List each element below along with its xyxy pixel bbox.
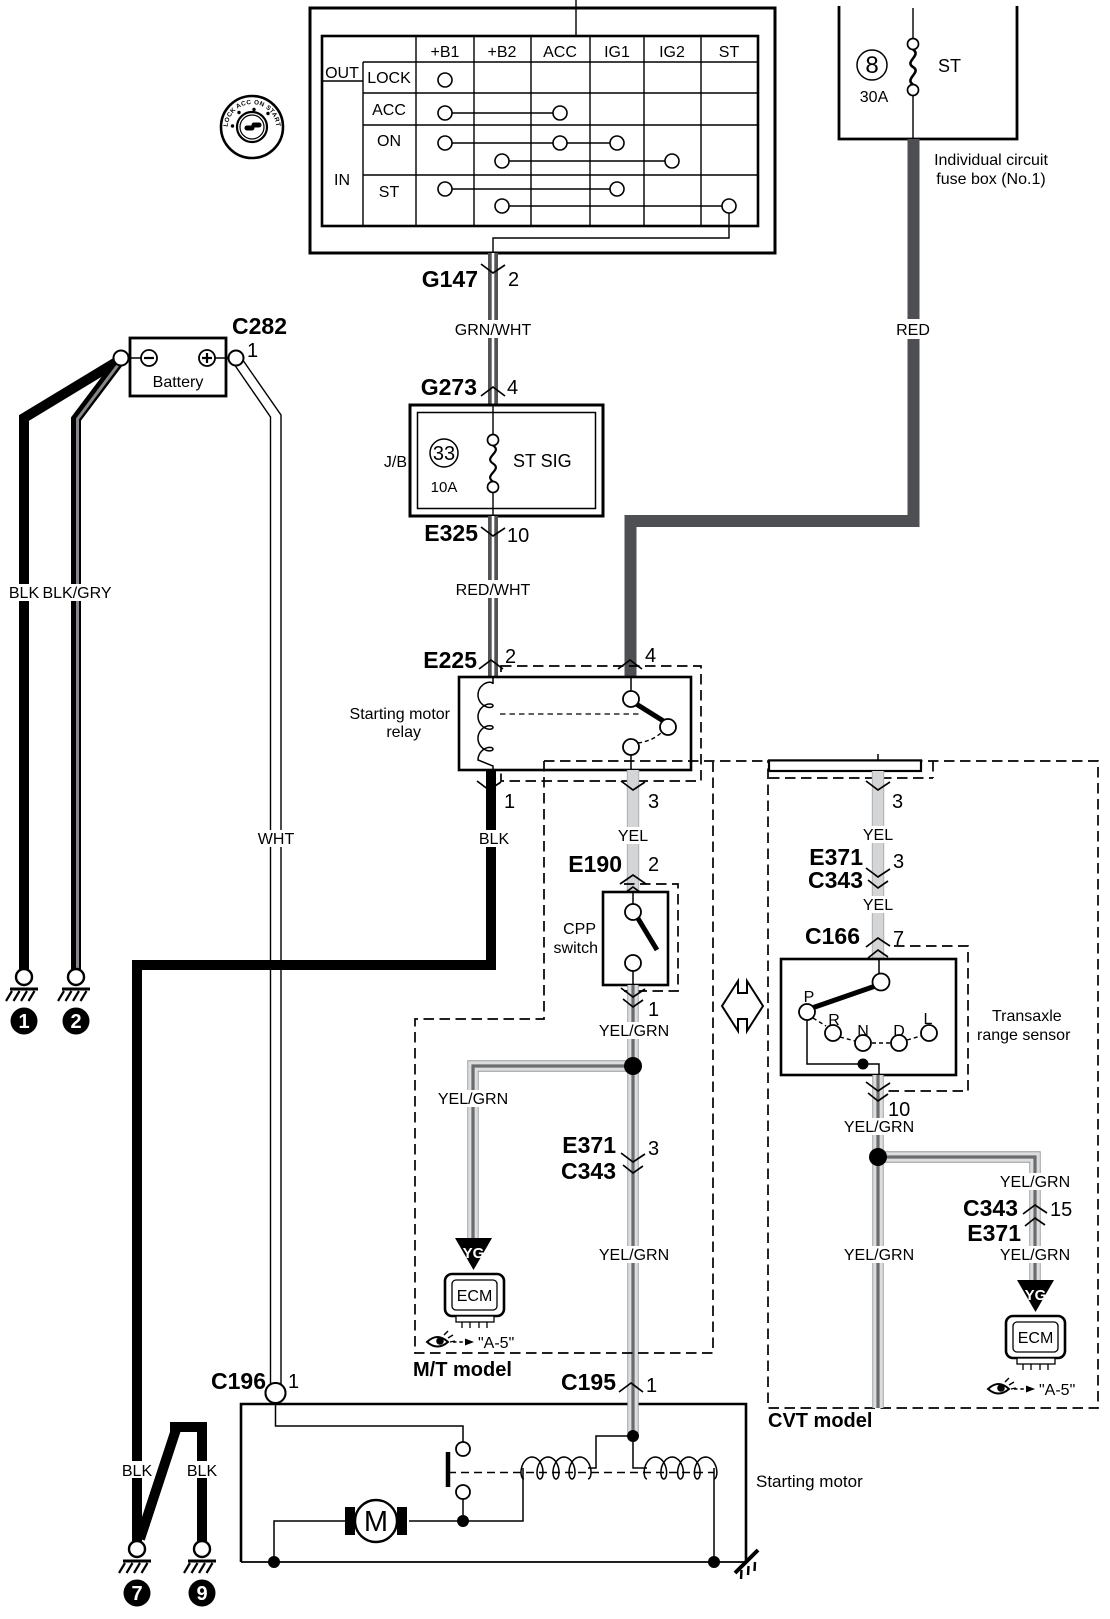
wire RED/WHT bbox=[455, 516, 531, 677]
wire YEL/GRN CPP to junction and C195 bbox=[599, 985, 669, 1436]
svg-text:10: 10 bbox=[507, 525, 529, 547]
svg-text:RED: RED bbox=[896, 322, 930, 339]
svg-text:E371: E371 bbox=[562, 1132, 616, 1158]
connector C343 E371 (CVT) pin 15 bbox=[963, 1195, 1072, 1246]
feed wire into ignition switch bbox=[575, 0, 577, 37]
svg-text:C166: C166 bbox=[805, 923, 860, 949]
svg-text:IG1: IG1 bbox=[604, 44, 630, 61]
connector C166 pin 7 bbox=[805, 923, 904, 958]
svg-text:2: 2 bbox=[505, 646, 516, 668]
starting motor bbox=[241, 1383, 863, 1568]
svg-text:+B1: +B1 bbox=[431, 44, 460, 61]
chassis ground at starting motor bbox=[735, 1550, 758, 1579]
svg-text:E190: E190 bbox=[568, 851, 622, 877]
svg-text:33: 33 bbox=[433, 443, 455, 465]
svg-text:C343: C343 bbox=[808, 867, 863, 893]
connector E325 pin 10 bbox=[424, 520, 529, 547]
svg-text:J/B: J/B bbox=[384, 454, 407, 471]
M/T model dashed boundary bbox=[413, 761, 713, 1381]
ignition switch key symbol bbox=[221, 96, 283, 158]
YG arrow to ECM (M/T) bbox=[455, 1238, 492, 1270]
wire YEL (CVT) to transaxle range sensor bbox=[860, 771, 896, 959]
svg-text:Individual circuit: Individual circuit bbox=[934, 152, 1048, 169]
svg-text:CPP: CPP bbox=[563, 921, 596, 938]
ignition switch assembly box bbox=[310, 8, 775, 253]
battery bbox=[128, 338, 228, 396]
svg-text:4: 4 bbox=[507, 377, 518, 399]
ECM (M/T) bbox=[445, 1274, 504, 1328]
svg-text:range sensor: range sensor bbox=[977, 1027, 1071, 1044]
svg-text:+B2: +B2 bbox=[488, 44, 517, 61]
svg-text:Battery: Battery bbox=[153, 374, 204, 391]
svg-text:Starting motor: Starting motor bbox=[350, 706, 451, 723]
svg-text:GRN/WHT: GRN/WHT bbox=[455, 322, 532, 339]
svg-text:M/T model: M/T model bbox=[413, 1359, 512, 1381]
svg-text:E225: E225 bbox=[423, 647, 477, 673]
wire WHT battery to C196 bbox=[234, 361, 296, 1384]
svg-text:YEL/GRN: YEL/GRN bbox=[599, 1247, 669, 1264]
connector G273 pin 4 bbox=[421, 374, 518, 400]
svg-text:YEL: YEL bbox=[863, 897, 893, 914]
svg-text:ST: ST bbox=[719, 44, 740, 61]
connector E225 pin 4 bbox=[618, 645, 656, 669]
junction block J/B with fuse 33 ST SIG bbox=[384, 405, 603, 516]
svg-text:3: 3 bbox=[648, 1138, 659, 1160]
svg-text:"A-5": "A-5" bbox=[1039, 1382, 1075, 1399]
individual circuit fuse box No.1 with fuse 8 ST 30A bbox=[839, 6, 1048, 188]
wire BLK battery to ground 1 bbox=[9, 361, 118, 969]
svg-text:BLK/GRY: BLK/GRY bbox=[42, 585, 111, 602]
svg-text:YEL/GRN: YEL/GRN bbox=[1000, 1247, 1070, 1264]
dashed link M/T to CVT bbox=[544, 760, 768, 762]
svg-text:10: 10 bbox=[888, 1099, 910, 1121]
connector E371 C343 (CVT) pin 3 bbox=[808, 844, 904, 893]
svg-text:BLK: BLK bbox=[9, 585, 40, 602]
svg-text:3: 3 bbox=[893, 851, 904, 873]
connector E225 pin 2 bbox=[423, 646, 516, 673]
svg-text:C282: C282 bbox=[232, 313, 287, 339]
svg-text:fuse box (No.1): fuse box (No.1) bbox=[936, 171, 1045, 188]
CVT branch pin 3 bbox=[866, 781, 903, 813]
ground 1 bbox=[6, 969, 38, 1035]
sight reference eye A-5 (CVT) bbox=[988, 1378, 1075, 1399]
svg-text:ST SIG: ST SIG bbox=[513, 451, 572, 471]
svg-text:1: 1 bbox=[247, 340, 258, 362]
relay pin 3 bbox=[621, 781, 659, 813]
sensor output pin 10 bbox=[866, 1082, 910, 1121]
wire from ST contact to G147 exit bbox=[493, 213, 729, 254]
svg-text:C343: C343 bbox=[561, 1158, 616, 1184]
svg-text:P: P bbox=[804, 989, 815, 1006]
connector C195 pin 1 bbox=[561, 1369, 657, 1397]
svg-text:E371: E371 bbox=[967, 1220, 1021, 1246]
svg-text:LOCK: LOCK bbox=[367, 70, 411, 87]
junction YEL/GRN (CVT) bbox=[869, 1148, 887, 1166]
svg-text:YEL: YEL bbox=[863, 827, 893, 844]
wire GRN/WHT bbox=[452, 253, 534, 405]
double arrow M/T-CVT bbox=[722, 981, 763, 1031]
relay output stub (CVT) bbox=[769, 754, 933, 778]
svg-text:switch: switch bbox=[554, 940, 598, 957]
svg-text:1: 1 bbox=[648, 999, 659, 1021]
svg-text:9: 9 bbox=[196, 1583, 207, 1605]
ground 7 bbox=[119, 1541, 151, 1607]
svg-text:YEL/GRN: YEL/GRN bbox=[844, 1119, 914, 1136]
svg-text:4: 4 bbox=[645, 645, 656, 667]
svg-text:N: N bbox=[857, 1023, 869, 1040]
CVT model dashed boundary bbox=[768, 761, 1098, 1432]
transaxle range sensor dashed connector outline bbox=[870, 946, 968, 1091]
connector G147 pin 2 bbox=[422, 264, 519, 292]
svg-text:CVT model: CVT model bbox=[768, 1410, 872, 1432]
svg-text:R: R bbox=[828, 1012, 840, 1029]
ignition switch contact table bbox=[322, 36, 758, 226]
svg-text:RED/WHT: RED/WHT bbox=[456, 582, 531, 599]
YG arrow to ECM (CVT) bbox=[1017, 1280, 1054, 1312]
svg-text:15: 15 bbox=[1050, 1199, 1072, 1221]
svg-text:ECM: ECM bbox=[1018, 1330, 1054, 1347]
svg-text:Starting motor: Starting motor bbox=[756, 1472, 863, 1491]
svg-text:3: 3 bbox=[892, 791, 903, 813]
svg-text:ST: ST bbox=[379, 184, 400, 201]
wire YEL relay pin3 to CPP switch bbox=[615, 770, 651, 892]
svg-text:G273: G273 bbox=[421, 374, 477, 400]
connector C282 pin 1 bbox=[114, 313, 287, 366]
svg-text:1: 1 bbox=[18, 1011, 29, 1033]
svg-text:M: M bbox=[364, 1506, 388, 1538]
ground 9 bbox=[184, 1541, 216, 1607]
svg-text:ACC: ACC bbox=[543, 44, 577, 61]
wire RED from fuse box to relay pin 4 bbox=[631, 139, 935, 677]
svg-text:8: 8 bbox=[865, 52, 878, 79]
wire BLK/GRY battery to ground 2 bbox=[42, 361, 121, 969]
svg-text:C195: C195 bbox=[561, 1369, 616, 1395]
svg-text:relay: relay bbox=[386, 724, 421, 741]
svg-text:7: 7 bbox=[131, 1583, 142, 1605]
connector E190 pin 2 bbox=[568, 851, 659, 895]
svg-text:YEL/GRN: YEL/GRN bbox=[438, 1091, 508, 1108]
svg-text:ECM: ECM bbox=[457, 1288, 493, 1305]
svg-text:WHT: WHT bbox=[258, 831, 295, 848]
connector E371 C343 (M/T) pin 3 bbox=[561, 1132, 659, 1184]
connector C196 pin 1 bbox=[211, 1368, 299, 1403]
svg-text:YEL/GRN: YEL/GRN bbox=[1000, 1174, 1070, 1191]
svg-text:ON: ON bbox=[377, 133, 401, 150]
svg-text:C196: C196 bbox=[211, 1368, 266, 1394]
svg-text:YEL/GRN: YEL/GRN bbox=[599, 1023, 669, 1040]
starting motor relay bbox=[350, 677, 691, 770]
svg-text:"A-5": "A-5" bbox=[478, 1335, 514, 1352]
svg-text:2: 2 bbox=[70, 1011, 81, 1033]
table contacts ON row bbox=[438, 136, 679, 168]
svg-text:ACC: ACC bbox=[372, 102, 406, 119]
svg-text:BLK: BLK bbox=[187, 1463, 218, 1480]
wire YEL/GRN junction to ECM (M/T) bbox=[438, 1066, 633, 1240]
svg-text:YEL/GRN: YEL/GRN bbox=[844, 1247, 914, 1264]
svg-text:1: 1 bbox=[504, 791, 515, 813]
svg-text:1: 1 bbox=[646, 1375, 657, 1397]
svg-text:BLK: BLK bbox=[122, 1463, 153, 1480]
wire BLK branch to ground 9 bbox=[140, 1427, 219, 1541]
ground 2 bbox=[58, 969, 90, 1035]
svg-text:30A: 30A bbox=[860, 89, 889, 106]
svg-text:Transaxle: Transaxle bbox=[992, 1008, 1062, 1025]
svg-text:D: D bbox=[893, 1023, 905, 1040]
CPP switch pin 1 bbox=[621, 988, 659, 1021]
svg-text:E325: E325 bbox=[424, 520, 478, 546]
table contacts ST row bbox=[438, 182, 736, 213]
svg-text:3: 3 bbox=[648, 791, 659, 813]
junction YEL/GRN (M/T) bbox=[624, 1057, 642, 1075]
CPP switch dashed connector outline bbox=[624, 884, 678, 991]
connector E225 dashed outline bbox=[501, 666, 701, 781]
svg-text:L: L bbox=[924, 1011, 933, 1028]
svg-text:YG: YG bbox=[463, 1245, 485, 1262]
svg-text:YG: YG bbox=[1025, 1287, 1047, 1304]
svg-text:2: 2 bbox=[508, 269, 519, 291]
sight reference eye A-5 (M/T) bbox=[427, 1331, 514, 1352]
svg-text:BLK: BLK bbox=[479, 831, 510, 848]
svg-text:10A: 10A bbox=[431, 479, 458, 496]
relay pin 1 bbox=[477, 781, 515, 813]
CPP switch bbox=[554, 892, 668, 985]
svg-text:IN: IN bbox=[334, 172, 350, 189]
wire BLK relay pin1 to ground 7 bbox=[120, 770, 510, 1541]
table contacts ACC row bbox=[438, 106, 567, 120]
svg-text:2: 2 bbox=[648, 854, 659, 876]
ECM (CVT) bbox=[1006, 1316, 1065, 1370]
transaxle range sensor bbox=[781, 959, 1071, 1075]
svg-text:1: 1 bbox=[288, 1371, 299, 1393]
svg-text:ST: ST bbox=[938, 56, 961, 76]
svg-text:YEL: YEL bbox=[618, 828, 648, 845]
table contacts LOCK row bbox=[438, 73, 452, 87]
svg-text:IG2: IG2 bbox=[659, 44, 685, 61]
wire YEL/GRN sensor to junction (CVT) bbox=[844, 1075, 914, 1408]
svg-text:G147: G147 bbox=[422, 266, 478, 292]
svg-text:OUT: OUT bbox=[325, 65, 359, 82]
svg-text:C343: C343 bbox=[963, 1195, 1018, 1221]
wire YEL/GRN junction to ECM (CVT) bbox=[878, 1157, 1070, 1282]
